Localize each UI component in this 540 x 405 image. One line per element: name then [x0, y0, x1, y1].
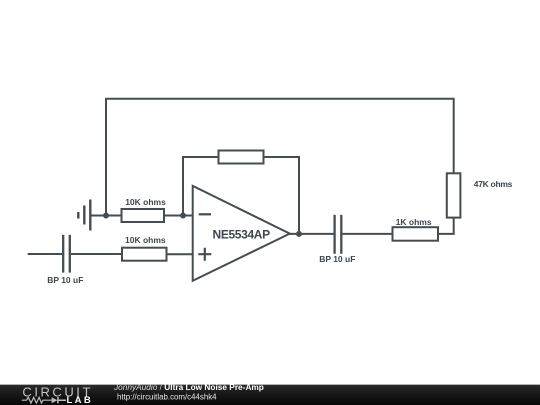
logo resistor-diode glyph [22, 397, 52, 403]
wire top feedback loop [106, 99, 454, 216]
svg-text:NE5534AP: NE5534AP [213, 228, 271, 242]
svg-text:JonnyAudio / Ultra Low Noise P: JonnyAudio / Ultra Low Noise Pre-Amp [113, 382, 264, 392]
resistor R3 1K [393, 227, 439, 241]
wire C1 to R2 [71, 253, 122, 255]
wire ground to R1 left [90, 215, 121, 217]
op-amp plus marker [198, 248, 211, 261]
svg-text:10K ohms: 10K ohms [125, 235, 166, 245]
svg-text:1K ohms: 1K ohms [396, 217, 432, 227]
resistor R4 47K [447, 173, 461, 217]
wire R2 to op-amp plus input [167, 253, 193, 255]
wire op-amp output to C2 [290, 233, 334, 235]
svg-text:BP 10 uF: BP 10 uF [319, 254, 355, 264]
svg-text:http://circuitlab.com/c44shk4: http://circuitlab.com/c44shk4 [117, 392, 217, 401]
resistor R1 10K [122, 209, 165, 222]
svg-text:47K ohms: 47K ohms [474, 179, 513, 189]
op-amp minus marker [199, 213, 211, 215]
resistor R2 10K [122, 248, 167, 261]
wire R1 right to op-amp minus input [164, 215, 193, 217]
op-amp U1 [193, 186, 290, 281]
node junction at ground [103, 213, 109, 219]
ground [78, 200, 90, 231]
capacitor C2 [335, 215, 342, 254]
svg-text:10K ohms: 10K ohms [125, 197, 166, 207]
wire 47K bottom to output line [438, 218, 454, 234]
node junction at output [296, 231, 302, 237]
wire feedback right branch [264, 157, 300, 234]
svg-text:BP 10 uF: BP 10 uF [47, 275, 83, 285]
wire input left to C1 [28, 253, 62, 255]
capacitor C1 [63, 235, 70, 273]
wire feedback left branch [183, 157, 219, 216]
resistor R5 feedback [219, 151, 264, 164]
wire C2 to R3 [342, 233, 392, 235]
node junction at inverting input [180, 213, 186, 219]
svg-text:LAB: LAB [67, 395, 91, 405]
